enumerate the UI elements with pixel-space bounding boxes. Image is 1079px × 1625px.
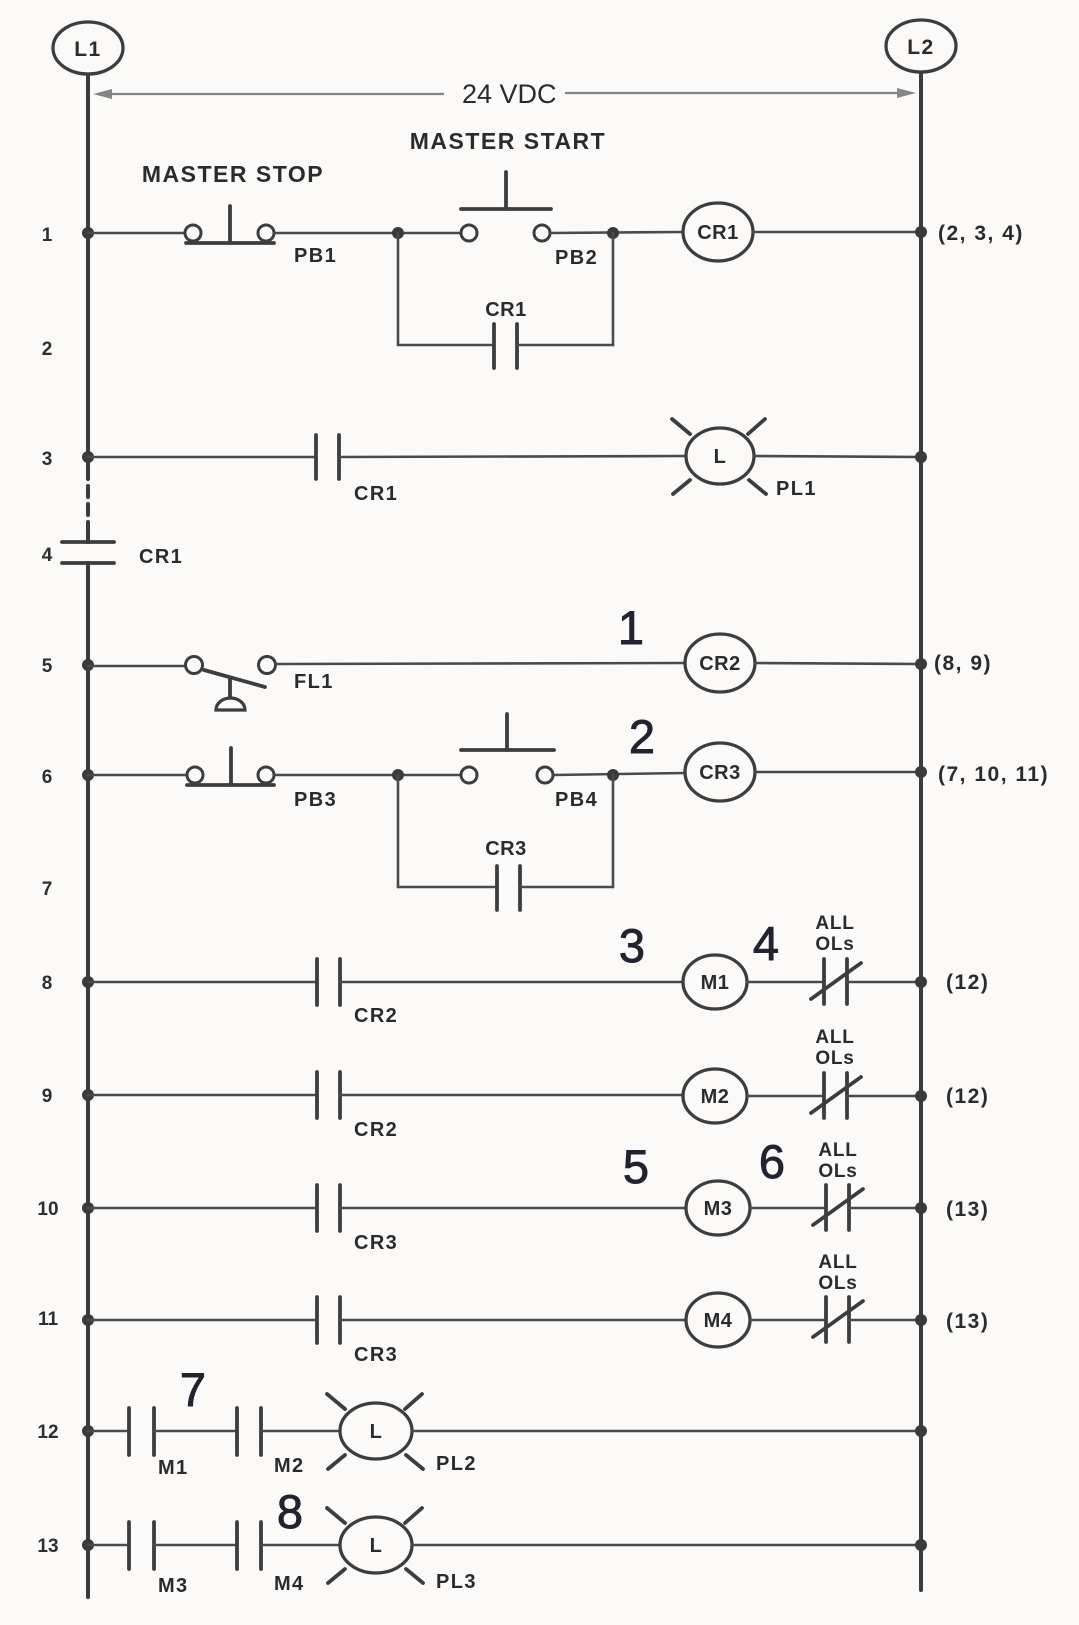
wire rung1 PB1 to PB2 — [274, 232, 461, 235]
wire rung2 branch left vertical — [397, 233, 400, 345]
wire rung11 rail to contact — [88, 1319, 317, 1322]
wire rung6 coil to rail — [755, 771, 919, 774]
svg-text:CR3: CR3 — [699, 762, 741, 784]
svg-text:OLs: OLs — [815, 1048, 854, 1069]
wire rung9 OL to rail — [847, 1095, 919, 1098]
wire rung13 rail to M3 contact — [88, 1544, 129, 1547]
motor starter coil M4 — [686, 1293, 750, 1347]
wire rung7 branch bottom left — [398, 886, 497, 889]
label M2 (rung 12) — [274, 1455, 305, 1477]
label (13) rung 10 — [946, 1198, 989, 1221]
label (13) rung 11 — [946, 1310, 989, 1333]
node rung12 left rail junction — [82, 1425, 94, 1437]
wire rung12 M2 to lamp — [261, 1430, 340, 1433]
wire rung13 M3 to M4 — [154, 1544, 237, 1547]
svg-text:L: L — [370, 1421, 383, 1443]
wire rung5 FL1 to coil — [276, 663, 685, 664]
svg-text:CR1: CR1 — [139, 546, 183, 568]
label CR3 (rung 11) — [354, 1344, 398, 1366]
lamp PL1 — [672, 419, 766, 494]
svg-text:(8, 9): (8, 9) — [934, 652, 992, 675]
label M3 (rung 13) — [158, 1575, 189, 1597]
wire rung9 rail to contact — [88, 1094, 317, 1097]
svg-text:M1: M1 — [158, 1457, 189, 1479]
relay coil CR1 — [683, 203, 753, 261]
rung number 4 — [42, 545, 53, 566]
svg-text:L: L — [714, 446, 727, 468]
node rung1 right rail junction — [915, 226, 927, 238]
pushbutton PB1 (NC master stop) — [185, 206, 274, 243]
label ALL OLs (rung 9) — [815, 1027, 854, 1069]
svg-text:3: 3 — [619, 919, 645, 972]
arrow left (24 VDC span) — [93, 89, 444, 99]
svg-text:MASTER START: MASTER START — [410, 128, 606, 154]
wire rung10 coil to OL — [750, 1207, 826, 1210]
contact CR3 (rung 10) — [317, 1185, 340, 1231]
svg-text:4: 4 — [753, 917, 779, 970]
svg-text:M4: M4 — [704, 1310, 733, 1332]
wire rung8 rail to contact — [88, 981, 317, 984]
svg-text:(12): (12) — [946, 1085, 989, 1108]
wire rung13 M4 to lamp — [261, 1544, 340, 1547]
svg-text:(13): (13) — [946, 1198, 989, 1221]
annotation number 4 — [753, 917, 779, 970]
terminal L2 — [886, 20, 956, 72]
wire rung10 rail to contact — [88, 1207, 317, 1210]
label (8, 9) — [934, 652, 992, 675]
wire rung1 PB2 to coil — [550, 232, 683, 233]
wire rung13 lamp to rail — [412, 1544, 919, 1547]
svg-text:PL1: PL1 — [776, 478, 817, 500]
node rung13 right rail junction — [915, 1539, 927, 1551]
svg-text:PB2: PB2 — [555, 247, 598, 269]
svg-text:PB1: PB1 — [294, 245, 337, 267]
rung number 5 — [42, 656, 53, 677]
rung number 6 — [42, 767, 53, 788]
contact CR2 (rung 9) — [317, 1072, 340, 1118]
svg-text:2: 2 — [629, 710, 655, 763]
label CR3 (rung 10) — [354, 1232, 398, 1254]
overload contact OL (rung 8) — [811, 959, 861, 1004]
wire rung8 OL to rail — [847, 981, 919, 984]
contact CR1 (rung 4, in rail) — [62, 542, 114, 563]
svg-text:(12): (12) — [946, 971, 989, 994]
node rung10 left rail junction — [82, 1202, 94, 1214]
node rung9 left rail junction — [82, 1089, 94, 1101]
svg-text:L2: L2 — [907, 36, 935, 59]
svg-text:2: 2 — [42, 339, 53, 360]
wire rung5 coil to rail — [755, 663, 919, 664]
label 24 VDC — [462, 79, 557, 109]
svg-text:OLs: OLs — [818, 1273, 857, 1294]
contact CR2 (rung 8) — [317, 959, 340, 1005]
label (12) rung 8 — [946, 971, 989, 994]
svg-text:CR2: CR2 — [354, 1119, 398, 1141]
rung number 11 — [38, 1309, 59, 1330]
node rung3 right rail junction — [915, 451, 927, 463]
label (7, 10, 11) — [938, 763, 1049, 786]
rung number 8 — [42, 973, 53, 994]
svg-text:8: 8 — [277, 1485, 303, 1538]
wire rung3 lamp to rail — [754, 456, 919, 457]
svg-text:CR3: CR3 — [485, 838, 527, 860]
svg-text:M2: M2 — [701, 1086, 730, 1108]
svg-text:ALL: ALL — [815, 1027, 854, 1048]
overload contact OL (rung 9) — [811, 1073, 861, 1118]
svg-text:10: 10 — [37, 1199, 58, 1220]
rail L2 (right power rail) — [919, 74, 923, 1590]
svg-text:L1: L1 — [74, 38, 102, 61]
label CR2 (rung 9) — [354, 1119, 398, 1141]
label PB2 — [555, 247, 598, 269]
node rung11 left rail junction — [82, 1314, 94, 1326]
label MASTER STOP — [142, 161, 324, 187]
annotation number 1 — [618, 601, 644, 654]
svg-text:M4: M4 — [274, 1573, 305, 1595]
node junction rung1/branch right — [607, 227, 619, 239]
svg-text:CR2: CR2 — [699, 653, 741, 675]
node rung5 right rail junction — [915, 658, 927, 670]
svg-text:3: 3 — [42, 449, 53, 470]
node rung3 left rail junction — [82, 451, 94, 463]
rung number 7 — [42, 879, 53, 900]
svg-text:M3: M3 — [704, 1198, 733, 1220]
wire rung6 rail to PB3 — [88, 774, 187, 777]
rung number 9 — [42, 1086, 53, 1107]
wire rung9 coil to OL — [747, 1095, 824, 1098]
svg-text:ALL: ALL — [815, 913, 854, 934]
wire rung11 contact to coil — [340, 1319, 684, 1322]
svg-text:9: 9 — [42, 1086, 53, 1107]
wire rung6 PB4 to coil — [553, 773, 685, 775]
svg-text:6: 6 — [42, 767, 53, 788]
svg-text:6: 6 — [759, 1135, 785, 1188]
wire rung2 branch bottom left — [398, 344, 494, 347]
label CR1 (rung 3) — [354, 483, 398, 505]
node junction rung6/branch left — [392, 769, 404, 781]
wire rung5 rail to FL1 — [88, 665, 184, 668]
label ALL OLs (rung 10) — [818, 1140, 857, 1182]
annotation number 2 — [629, 710, 655, 763]
node junction rung6/branch right — [607, 769, 619, 781]
pushbutton PB2 (NO master start) — [461, 172, 551, 241]
annotation number 7 — [180, 1363, 206, 1416]
wire rung8 coil to OL — [747, 981, 824, 984]
svg-text:(2, 3, 4): (2, 3, 4) — [938, 222, 1024, 245]
label PL2 — [436, 1453, 477, 1475]
wire rung12 M1 to M2 — [154, 1430, 237, 1433]
arrow right (24 VDC span) — [565, 88, 916, 98]
wire rung11 OL to rail — [849, 1319, 919, 1322]
node rung5 left rail junction — [82, 659, 94, 671]
wire rung7 branch right vertical — [612, 775, 615, 887]
svg-text:5: 5 — [42, 656, 53, 677]
wire rung7 branch bottom right — [520, 886, 613, 889]
svg-text:CR3: CR3 — [354, 1344, 398, 1366]
rung number 3 — [42, 449, 53, 470]
label PL3 — [436, 1571, 477, 1593]
wire rung2 branch bottom right — [517, 344, 613, 347]
svg-text:M3: M3 — [158, 1575, 189, 1597]
rung number 2 — [42, 339, 53, 360]
node rung9 right rail junction — [915, 1090, 927, 1102]
svg-text:FL1: FL1 — [294, 671, 334, 693]
svg-text:M1: M1 — [701, 972, 730, 994]
svg-text:(7, 10, 11): (7, 10, 11) — [938, 763, 1049, 786]
label MASTER START — [410, 128, 606, 154]
svg-text:4: 4 — [42, 545, 53, 566]
contact CR3 (rung 11) — [317, 1297, 340, 1343]
svg-text:1: 1 — [618, 601, 644, 654]
rung number 1 — [42, 225, 53, 246]
motor starter coil M3 — [686, 1181, 750, 1235]
lamp PL2 — [327, 1394, 423, 1469]
overload contact OL (rung 10) — [813, 1185, 863, 1230]
wire rung2 branch right vertical — [612, 233, 615, 345]
svg-text:CR3: CR3 — [354, 1232, 398, 1254]
annotation number 3 — [619, 919, 645, 972]
wire rung3 contact to lamp — [339, 456, 686, 457]
label PB3 — [294, 789, 337, 811]
label FL1 — [294, 671, 334, 693]
node rung6 left rail junction — [82, 769, 94, 781]
terminal L1 — [53, 22, 123, 74]
node rung12 right rail junction — [915, 1425, 927, 1437]
wire rung11 coil to OL — [750, 1319, 826, 1322]
svg-text:OLs: OLs — [818, 1161, 857, 1182]
wire rung10 OL to rail — [849, 1207, 919, 1210]
svg-text:CR1: CR1 — [354, 483, 398, 505]
label M4 (rung 13) — [274, 1573, 305, 1595]
svg-text:8: 8 — [42, 973, 53, 994]
node rung11 right rail junction — [915, 1314, 927, 1326]
motor starter coil M1 — [683, 955, 747, 1009]
rung number 12 — [37, 1422, 58, 1443]
overload contact OL (rung 11) — [813, 1297, 863, 1342]
svg-text:CR1: CR1 — [697, 222, 739, 244]
svg-text:5: 5 — [623, 1140, 649, 1193]
svg-text:PL2: PL2 — [436, 1453, 477, 1475]
svg-text:PB3: PB3 — [294, 789, 337, 811]
label M1 (rung 12) — [158, 1457, 189, 1479]
wire rung7 branch left vertical — [397, 775, 400, 887]
wire rung3 rail to contact — [88, 456, 316, 459]
svg-text:13: 13 — [37, 1536, 58, 1557]
label CR3 (rung 7) — [485, 838, 527, 860]
node rung13 left rail junction — [82, 1539, 94, 1551]
relay coil CR3 — [685, 743, 755, 801]
contact CR3 (seal-in, rung 7) — [497, 866, 520, 910]
svg-text:12: 12 — [37, 1422, 58, 1443]
label ALL OLs (rung 8) — [815, 913, 854, 955]
wire rung12 lamp to rail — [412, 1430, 919, 1433]
wire rung12 rail to M1 contact — [88, 1430, 129, 1433]
svg-text:PL3: PL3 — [436, 1571, 477, 1593]
label ALL OLs (rung 11) — [818, 1252, 857, 1294]
annotation number 6 — [759, 1135, 785, 1188]
float switch FL1 — [186, 657, 276, 711]
contact M3 (rung 13) — [129, 1522, 154, 1569]
contact M1 (rung 12) — [129, 1408, 154, 1455]
label PB1 — [294, 245, 337, 267]
svg-text:7: 7 — [180, 1363, 206, 1416]
wire rung10 contact to coil — [340, 1207, 684, 1210]
contact CR1 (seal-in, rung 2) — [494, 324, 517, 368]
contact M4 (rung 13) — [237, 1522, 261, 1569]
svg-text:7: 7 — [42, 879, 53, 900]
rung number 13 — [37, 1536, 58, 1557]
label (2, 3, 4) — [938, 222, 1024, 245]
wire rung6 PB3 to PB4 — [274, 774, 461, 777]
svg-text:24 VDC: 24 VDC — [462, 79, 557, 109]
wire rung8 contact to coil — [340, 981, 682, 984]
annotation number 8 — [277, 1485, 303, 1538]
wire rung1 rail to PB1 — [88, 232, 185, 235]
pushbutton PB3 (NC) — [187, 748, 274, 785]
label (12) rung 9 — [946, 1085, 989, 1108]
svg-text:OLs: OLs — [815, 934, 854, 955]
svg-text:M2: M2 — [274, 1455, 305, 1477]
label CR1 (rung 2) — [485, 299, 527, 321]
lamp PL3 — [327, 1508, 423, 1583]
annotation number 5 — [623, 1140, 649, 1193]
node rung8 left rail junction — [82, 976, 94, 988]
svg-text:PB4: PB4 — [555, 789, 598, 811]
rail L1 (left power rail) — [86, 76, 90, 1597]
node rung6 right rail junction — [915, 766, 927, 778]
contact M2 (rung 12) — [237, 1408, 261, 1455]
label CR1 (rung 4) — [139, 546, 183, 568]
svg-text:1: 1 — [42, 225, 53, 246]
svg-text:ALL: ALL — [818, 1252, 857, 1273]
relay coil CR2 — [685, 634, 755, 692]
wire rung1 coil to rail — [753, 231, 919, 234]
label PL1 — [776, 478, 817, 500]
wire rung9 contact to coil — [340, 1094, 682, 1097]
rung number 10 — [37, 1199, 58, 1220]
svg-text:ALL: ALL — [818, 1140, 857, 1161]
svg-text:CR1: CR1 — [485, 299, 527, 321]
svg-text:CR2: CR2 — [354, 1005, 398, 1027]
node rung1 left rail junction — [82, 227, 94, 239]
label CR2 (rung 8) — [354, 1005, 398, 1027]
svg-text:L: L — [370, 1535, 383, 1557]
node junction rung1/branch left — [392, 227, 404, 239]
contact CR1 (rung 3) — [316, 435, 339, 479]
svg-text:(13): (13) — [946, 1310, 989, 1333]
motor starter coil M2 — [683, 1069, 747, 1123]
node rung10 right rail junction — [915, 1202, 927, 1214]
svg-text:11: 11 — [38, 1309, 59, 1330]
svg-text:MASTER STOP: MASTER STOP — [142, 161, 324, 187]
label PB4 — [555, 789, 598, 811]
node rung8 right rail junction — [915, 976, 927, 988]
pushbutton PB4 (NO) — [461, 714, 554, 783]
